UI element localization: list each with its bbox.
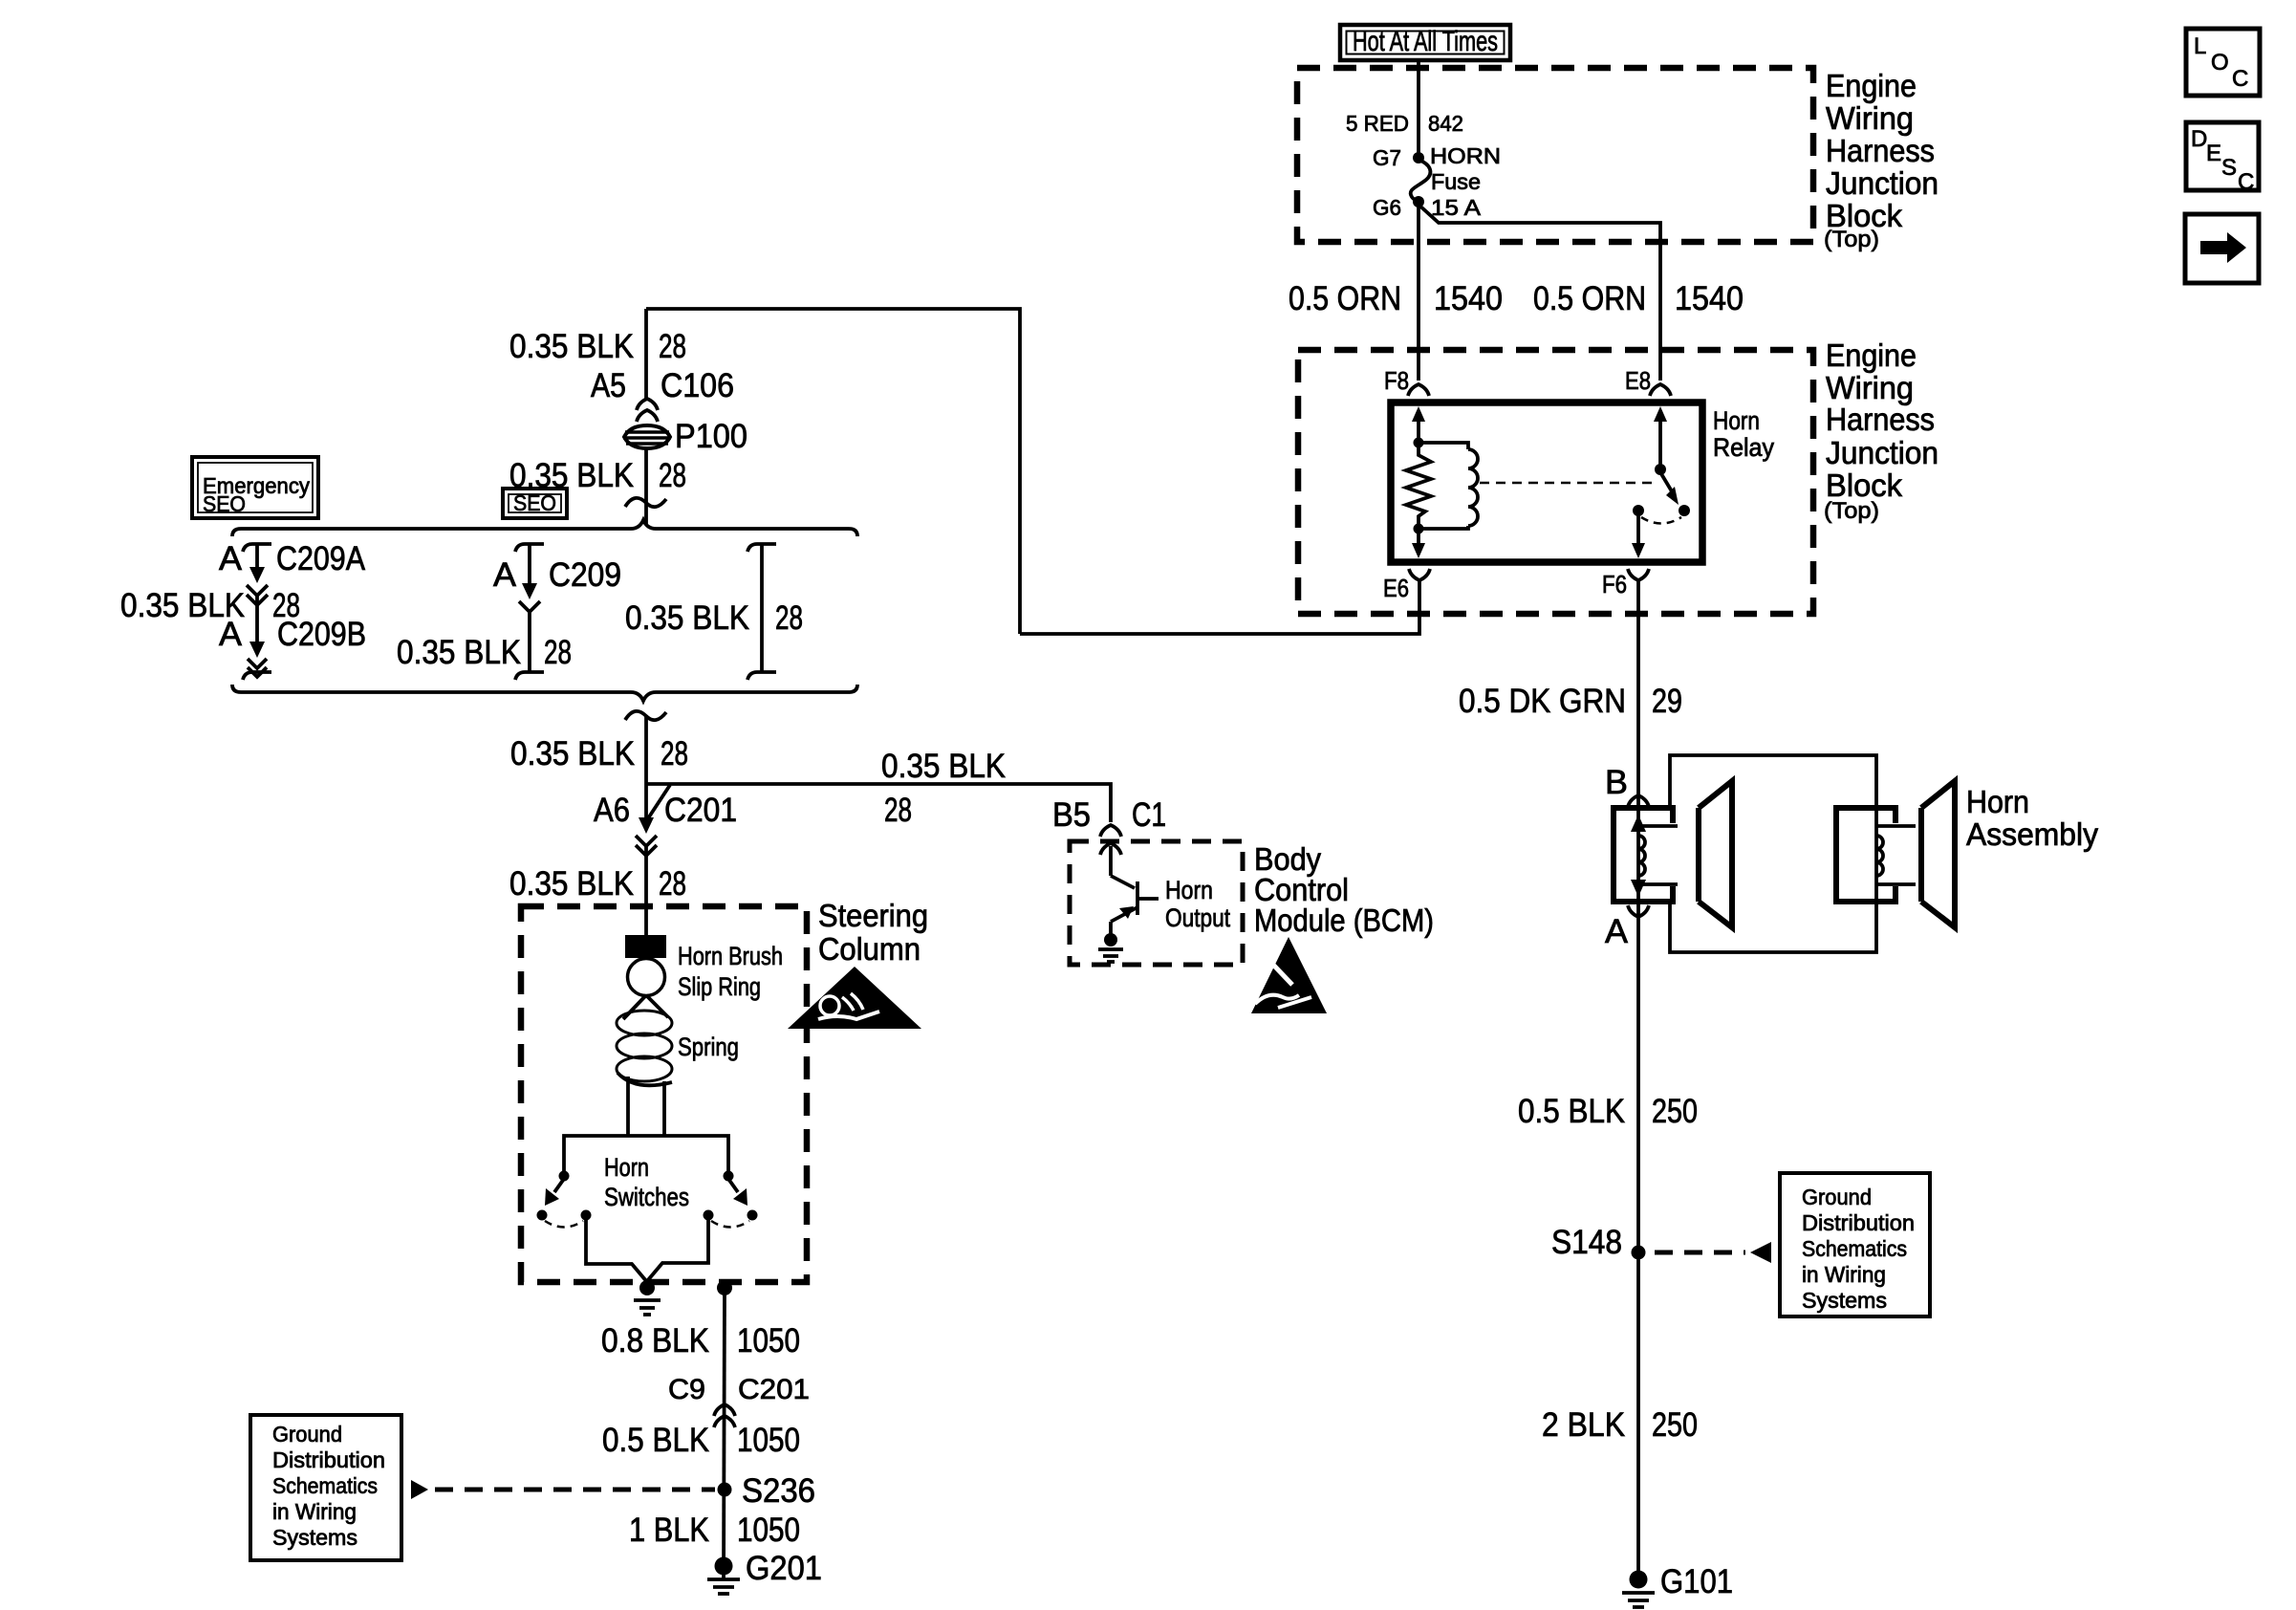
svg-text:1540: 1540 <box>1434 280 1503 317</box>
relay contact dashed arc <box>1641 517 1681 524</box>
switch right pivot <box>724 1171 734 1182</box>
svg-text:842: 842 <box>1428 111 1463 136</box>
svg-text:C209B: C209B <box>277 616 366 653</box>
svg-text:C: C <box>2232 66 2248 92</box>
svg-text:Switches: Switches <box>604 1183 689 1211</box>
Engine Wiring Harness Junction Block (top) dashed enclosure <box>1297 68 1813 242</box>
svg-text:Junction: Junction <box>1826 165 1939 201</box>
relay coil feed pin arrow F8 (inside) <box>1412 406 1425 443</box>
wire dashed reference arrow to ground distribution box <box>1655 1242 1771 1263</box>
spring coil <box>617 995 672 1085</box>
icon steering airbag warning triangle <box>788 967 921 1029</box>
svg-text:C106: C106 <box>661 367 734 404</box>
node steering ground junction <box>639 1280 655 1295</box>
label Horn Output <box>1165 876 1230 932</box>
brace upper (options split) <box>232 520 857 536</box>
svg-text:0.5 ORN: 0.5 ORN <box>1533 280 1646 317</box>
svg-text:Hot At All Times: Hot At All Times <box>1353 26 1498 57</box>
horn 1 coil with arrows <box>1631 811 1678 899</box>
wire switch outputs merge to ground <box>586 1220 647 1282</box>
icon DESC box <box>2186 122 2259 195</box>
switch contacts right pair <box>704 1210 758 1228</box>
switch left pivot <box>559 1171 570 1182</box>
svg-text:D: D <box>2191 126 2207 152</box>
wire A6 branch diagonal <box>648 785 670 818</box>
svg-text:G101: G101 <box>1660 1563 1733 1600</box>
label 0.35 BLK | 28 (row below A6) <box>509 865 686 903</box>
node S236 <box>718 1472 816 1510</box>
icon forward arrow box <box>2185 214 2259 283</box>
svg-text:A: A <box>219 616 243 653</box>
svg-text:29: 29 <box>1652 683 1682 720</box>
label 0.35 BLK | 28 (C209 middle) <box>397 634 572 671</box>
svg-text:A5: A5 <box>591 367 626 404</box>
label 0.35 BLK | 28 (right bracket) <box>625 599 803 637</box>
label SEO box <box>503 489 567 518</box>
svg-text:0.8 BLK: 0.8 BLK <box>601 1322 709 1360</box>
pin A | C209A <box>219 540 366 577</box>
svg-text:B: B <box>1605 764 1628 801</box>
relay switch blade <box>1660 472 1679 505</box>
label Ground Distribution Schematics in Wiring Systems (right box) <box>1780 1173 1930 1316</box>
label Horn Assembly <box>1966 784 2098 852</box>
svg-text:28: 28 <box>659 457 686 494</box>
svg-text:Assembly: Assembly <box>1966 816 2098 852</box>
svg-text:Horn: Horn <box>1966 784 2029 819</box>
svg-text:Horn: Horn <box>1165 876 1213 904</box>
svg-text:SEO: SEO <box>513 490 556 515</box>
label 5 RED | 842 <box>1346 111 1463 136</box>
svg-text:Horn: Horn <box>604 1153 649 1182</box>
svg-text:Module (BCM): Module (BCM) <box>1254 903 1434 938</box>
label Emergency SEO box <box>192 457 318 518</box>
horn 1 driver body <box>1614 808 1702 902</box>
label 0.35 BLK / 28 (branch) <box>881 748 1006 829</box>
svg-text:250: 250 <box>1652 1093 1698 1130</box>
svg-text:28: 28 <box>884 792 912 829</box>
svg-text:0.35 BLK: 0.35 BLK <box>509 865 634 903</box>
inductor relay coil <box>1419 443 1478 529</box>
svg-text:Slip Ring: Slip Ring <box>678 972 761 1001</box>
svg-text:Distribution: Distribution <box>1802 1210 1915 1235</box>
label Steering Column <box>818 898 928 967</box>
label 0.35 BLK | 28 (row below brace) <box>510 735 688 772</box>
svg-text:0.5 BLK: 0.5 BLK <box>1518 1093 1625 1130</box>
svg-text:1050: 1050 <box>737 1512 800 1549</box>
node G6 <box>1373 195 1424 220</box>
svg-text:Wiring: Wiring <box>1826 370 1914 405</box>
svg-text:Ground: Ground <box>272 1422 342 1447</box>
label 0.5 BLK | 250 <box>1518 1093 1698 1130</box>
pin C9 | C201 <box>668 1374 810 1427</box>
svg-text:2 BLK: 2 BLK <box>1542 1406 1625 1444</box>
svg-text:0.5 DK GRN: 0.5 DK GRN <box>1459 683 1626 720</box>
svg-text:0.35 BLK: 0.35 BLK <box>509 328 634 365</box>
wire fuse output jog right to E8 drop <box>1419 205 1660 381</box>
svg-text:Systems: Systems <box>1802 1288 1887 1313</box>
svg-text:28: 28 <box>659 328 686 365</box>
fuse HORN Fuse 15 A <box>1411 143 1501 220</box>
pin A5 | C106 <box>591 367 734 422</box>
ground (steering column) <box>634 1300 661 1315</box>
svg-text:G6: G6 <box>1373 195 1401 220</box>
svg-text:in Wiring: in Wiring <box>1802 1262 1886 1287</box>
svg-text:S: S <box>2221 155 2237 181</box>
svg-text:0.35 BLK: 0.35 BLK <box>510 735 635 772</box>
transistor Q1 Horn Output driver <box>1100 843 1159 934</box>
wire junction riser up and left to P100 branch <box>646 309 1020 634</box>
svg-text:Engine: Engine <box>1826 337 1917 373</box>
svg-text:28: 28 <box>775 599 803 637</box>
svg-text:1540: 1540 <box>1675 280 1744 317</box>
wire A6 to steering column <box>644 846 648 937</box>
horn 2 driver body <box>1836 808 1925 902</box>
svg-text:Fuse: Fuse <box>1431 169 1481 194</box>
switch contacts left pair <box>537 1210 592 1228</box>
pin B5 | C1 <box>1052 796 1166 837</box>
node relay coil top junction <box>1414 438 1424 448</box>
label Horn Switches <box>604 1153 689 1211</box>
svg-text:(Top): (Top) <box>1824 498 1879 524</box>
svg-text:250: 250 <box>1652 1406 1698 1444</box>
svg-text:S236: S236 <box>742 1472 815 1510</box>
svg-text:C1: C1 <box>1132 796 1166 834</box>
svg-text:Schematics: Schematics <box>272 1473 378 1498</box>
switch left blade arrow <box>545 1179 564 1206</box>
icon LOC box <box>2186 29 2260 96</box>
svg-text:1050: 1050 <box>737 1422 800 1459</box>
wire dashed reference arrow to ground distribution box (left) <box>411 1480 715 1499</box>
pin A | C209B <box>219 616 366 653</box>
svg-text:Relay: Relay <box>1713 433 1774 462</box>
Engine Wiring Harness Junction Block (relay) dashed enclosure <box>1298 350 1813 614</box>
svg-text:Horn Brush: Horn Brush <box>678 942 783 970</box>
slip ring <box>628 959 665 996</box>
svg-text:15 A: 15 A <box>1431 195 1482 220</box>
node G7 <box>1373 145 1424 170</box>
svg-text:A: A <box>493 556 517 594</box>
horn 2 coil <box>1876 808 1916 902</box>
svg-text:Output: Output <box>1165 903 1230 932</box>
svg-text:C9: C9 <box>668 1374 705 1405</box>
wire horn loop bottom <box>1670 902 1876 952</box>
svg-text:B5: B5 <box>1052 796 1091 834</box>
wire P100 riser top <box>644 309 648 401</box>
node relay F6 contact <box>1633 505 1644 516</box>
connector P100 pass-through <box>623 418 747 455</box>
svg-text:A: A <box>219 540 243 577</box>
svg-text:C: C <box>2238 169 2254 195</box>
label 2 BLK | 250 <box>1542 1406 1698 1444</box>
svg-text:Harness: Harness <box>1826 133 1935 168</box>
svg-text:A: A <box>1605 913 1629 950</box>
svg-text:E8: E8 <box>1625 366 1651 395</box>
wire break squiggle below brace <box>625 711 666 720</box>
horn brush <box>625 935 666 958</box>
svg-text:Steering: Steering <box>818 898 928 933</box>
label Engine Wiring Harness Junction Block (Top) second <box>1824 337 1939 524</box>
wire unspliced branch (right bracket) <box>747 544 776 680</box>
switch right blade arrow <box>728 1179 747 1206</box>
svg-text:G7: G7 <box>1373 145 1401 170</box>
wire switch header bar <box>564 1136 728 1174</box>
pin E8 <box>1625 366 1671 396</box>
brace lower (options merge) <box>232 685 857 701</box>
svg-text:HORN: HORN <box>1430 143 1501 168</box>
label Horn Brush Slip Ring <box>678 942 783 1001</box>
ground G101 <box>1622 1563 1733 1607</box>
svg-text:Spring: Spring <box>678 1033 739 1061</box>
wire relay armature link (dashed) <box>1480 482 1657 485</box>
svg-text:Horn: Horn <box>1713 406 1760 435</box>
node relay output contact <box>1679 505 1690 516</box>
svg-text:C201: C201 <box>738 1374 810 1405</box>
wire break squiggle above brace <box>625 498 666 507</box>
svg-text:1050: 1050 <box>737 1322 800 1360</box>
svg-text:C209: C209 <box>549 556 621 594</box>
svg-text:5 RED: 5 RED <box>1346 111 1409 136</box>
pin F8 <box>1384 366 1429 396</box>
node relay coil bottom junction <box>1414 524 1424 534</box>
relay U1 Horn Relay box <box>1391 402 1702 562</box>
ground (BCM internal) <box>1098 933 1123 962</box>
svg-text:L: L <box>2194 33 2206 59</box>
wire E6 down and left to junction riser <box>1020 581 1419 634</box>
svg-text:C209A: C209A <box>276 540 366 577</box>
svg-text:P100: P100 <box>675 418 747 455</box>
wire spring legs <box>628 1077 664 1136</box>
label Body Control Module (BCM) <box>1254 841 1434 938</box>
wire F6 to horn assembly <box>1636 580 1640 808</box>
label 0.5 BLK | 1050 <box>602 1422 800 1459</box>
svg-text:Schematics: Schematics <box>1802 1236 1907 1261</box>
wire steering to G201 <box>724 1288 725 1579</box>
svg-text:(Top): (Top) <box>1824 227 1879 252</box>
svg-text:Harness: Harness <box>1826 402 1935 437</box>
label 1 BLK | 1050 <box>629 1512 800 1549</box>
wire fuse output down to F8 <box>1417 202 1420 381</box>
svg-text:G201: G201 <box>746 1550 822 1587</box>
label 0.8 BLK | 1050 <box>601 1322 800 1360</box>
svg-text:28: 28 <box>544 634 572 671</box>
node Hot At All Times label box <box>1340 25 1510 60</box>
svg-text:F8: F8 <box>1384 366 1409 395</box>
svg-text:in Wiring: in Wiring <box>272 1499 357 1524</box>
pin A (horn) <box>1605 905 1649 950</box>
icon ESD warning triangle <box>1251 937 1327 1013</box>
relay F6 output arrow (inside) <box>1632 511 1645 558</box>
horn 2 cone <box>1921 781 1955 927</box>
Body Control Module dashed enclosure <box>1070 841 1243 965</box>
svg-text:F6: F6 <box>1602 570 1627 598</box>
svg-text:28: 28 <box>661 735 688 772</box>
svg-text:28: 28 <box>659 865 686 903</box>
relay switch input arrow from E8 (inside) <box>1654 406 1667 469</box>
wire from Hot At All Times into fuse <box>1417 60 1420 157</box>
svg-text:0.5 ORN: 0.5 ORN <box>1289 280 1401 317</box>
svg-text:Systems: Systems <box>272 1525 357 1550</box>
svg-text:S148: S148 <box>1551 1224 1622 1261</box>
label 0.5 DK GRN | 29 <box>1459 683 1682 720</box>
svg-text:Distribution: Distribution <box>272 1447 385 1472</box>
node steering body ground tap <box>717 1280 732 1295</box>
label Horn Relay <box>1713 406 1774 462</box>
svg-text:Wiring: Wiring <box>1826 100 1914 136</box>
pin F6 <box>1602 569 1649 598</box>
svg-text:Column: Column <box>818 931 921 967</box>
resistor (relay) <box>1406 443 1431 529</box>
svg-text:E: E <box>2206 141 2221 166</box>
label 0.35 BLK | 28 (row 1) <box>509 328 686 365</box>
pin A6 | C201 <box>594 792 737 856</box>
svg-text:0.35 BLK: 0.35 BLK <box>397 634 521 671</box>
connector C209A / C209B chain <box>243 544 271 680</box>
wire horn ground run <box>1636 902 1640 1579</box>
svg-text:Engine: Engine <box>1826 68 1917 103</box>
svg-text:1 BLK: 1 BLK <box>629 1512 709 1549</box>
svg-text:0.5 BLK: 0.5 BLK <box>602 1422 709 1459</box>
horn 1 cone <box>1699 781 1732 927</box>
svg-text:Ground: Ground <box>1802 1185 1872 1209</box>
node relay switch common <box>1655 464 1666 475</box>
wire brace to A6 connector <box>644 715 648 817</box>
Steering Column dashed enclosure <box>521 906 807 1282</box>
svg-text:C201: C201 <box>664 792 737 829</box>
label 0.5 ORN | 1540 (left pair) <box>1289 280 1503 317</box>
label 0.5 ORN | 1540 (right pair) <box>1533 280 1744 317</box>
wire branch to BCM <box>646 784 1111 822</box>
svg-text:Junction: Junction <box>1826 435 1939 470</box>
horn assembly connecting loop <box>1670 755 1876 808</box>
pin B (horn) <box>1605 764 1649 807</box>
svg-text:0.35 BLK: 0.35 BLK <box>881 748 1006 785</box>
label Engine Wiring Harness Junction Block (Top) <box>1824 68 1939 252</box>
label Ground Distribution Schematics in Wiring Systems (left box) <box>250 1415 401 1560</box>
label 0.35 BLK | 28 (C209 left) <box>120 587 300 624</box>
pin A | C209 <box>493 556 621 594</box>
node S148 <box>1551 1224 1646 1261</box>
wire right switch output <box>647 1220 708 1281</box>
svg-text:O: O <box>2211 50 2229 76</box>
connector C209 (middle) <box>515 544 544 680</box>
svg-text:E6: E6 <box>1383 574 1409 602</box>
pin E6 <box>1383 569 1430 602</box>
ground G201 <box>707 1550 822 1594</box>
svg-text:0.35 BLK: 0.35 BLK <box>625 599 749 637</box>
svg-text:SEO: SEO <box>203 491 246 516</box>
wire P100 to brace <box>644 449 648 525</box>
relay coil return arrow toward E6 <box>1412 529 1425 558</box>
label 0.35 BLK | 28 (row 2) <box>509 457 686 494</box>
svg-text:A6: A6 <box>594 792 630 829</box>
